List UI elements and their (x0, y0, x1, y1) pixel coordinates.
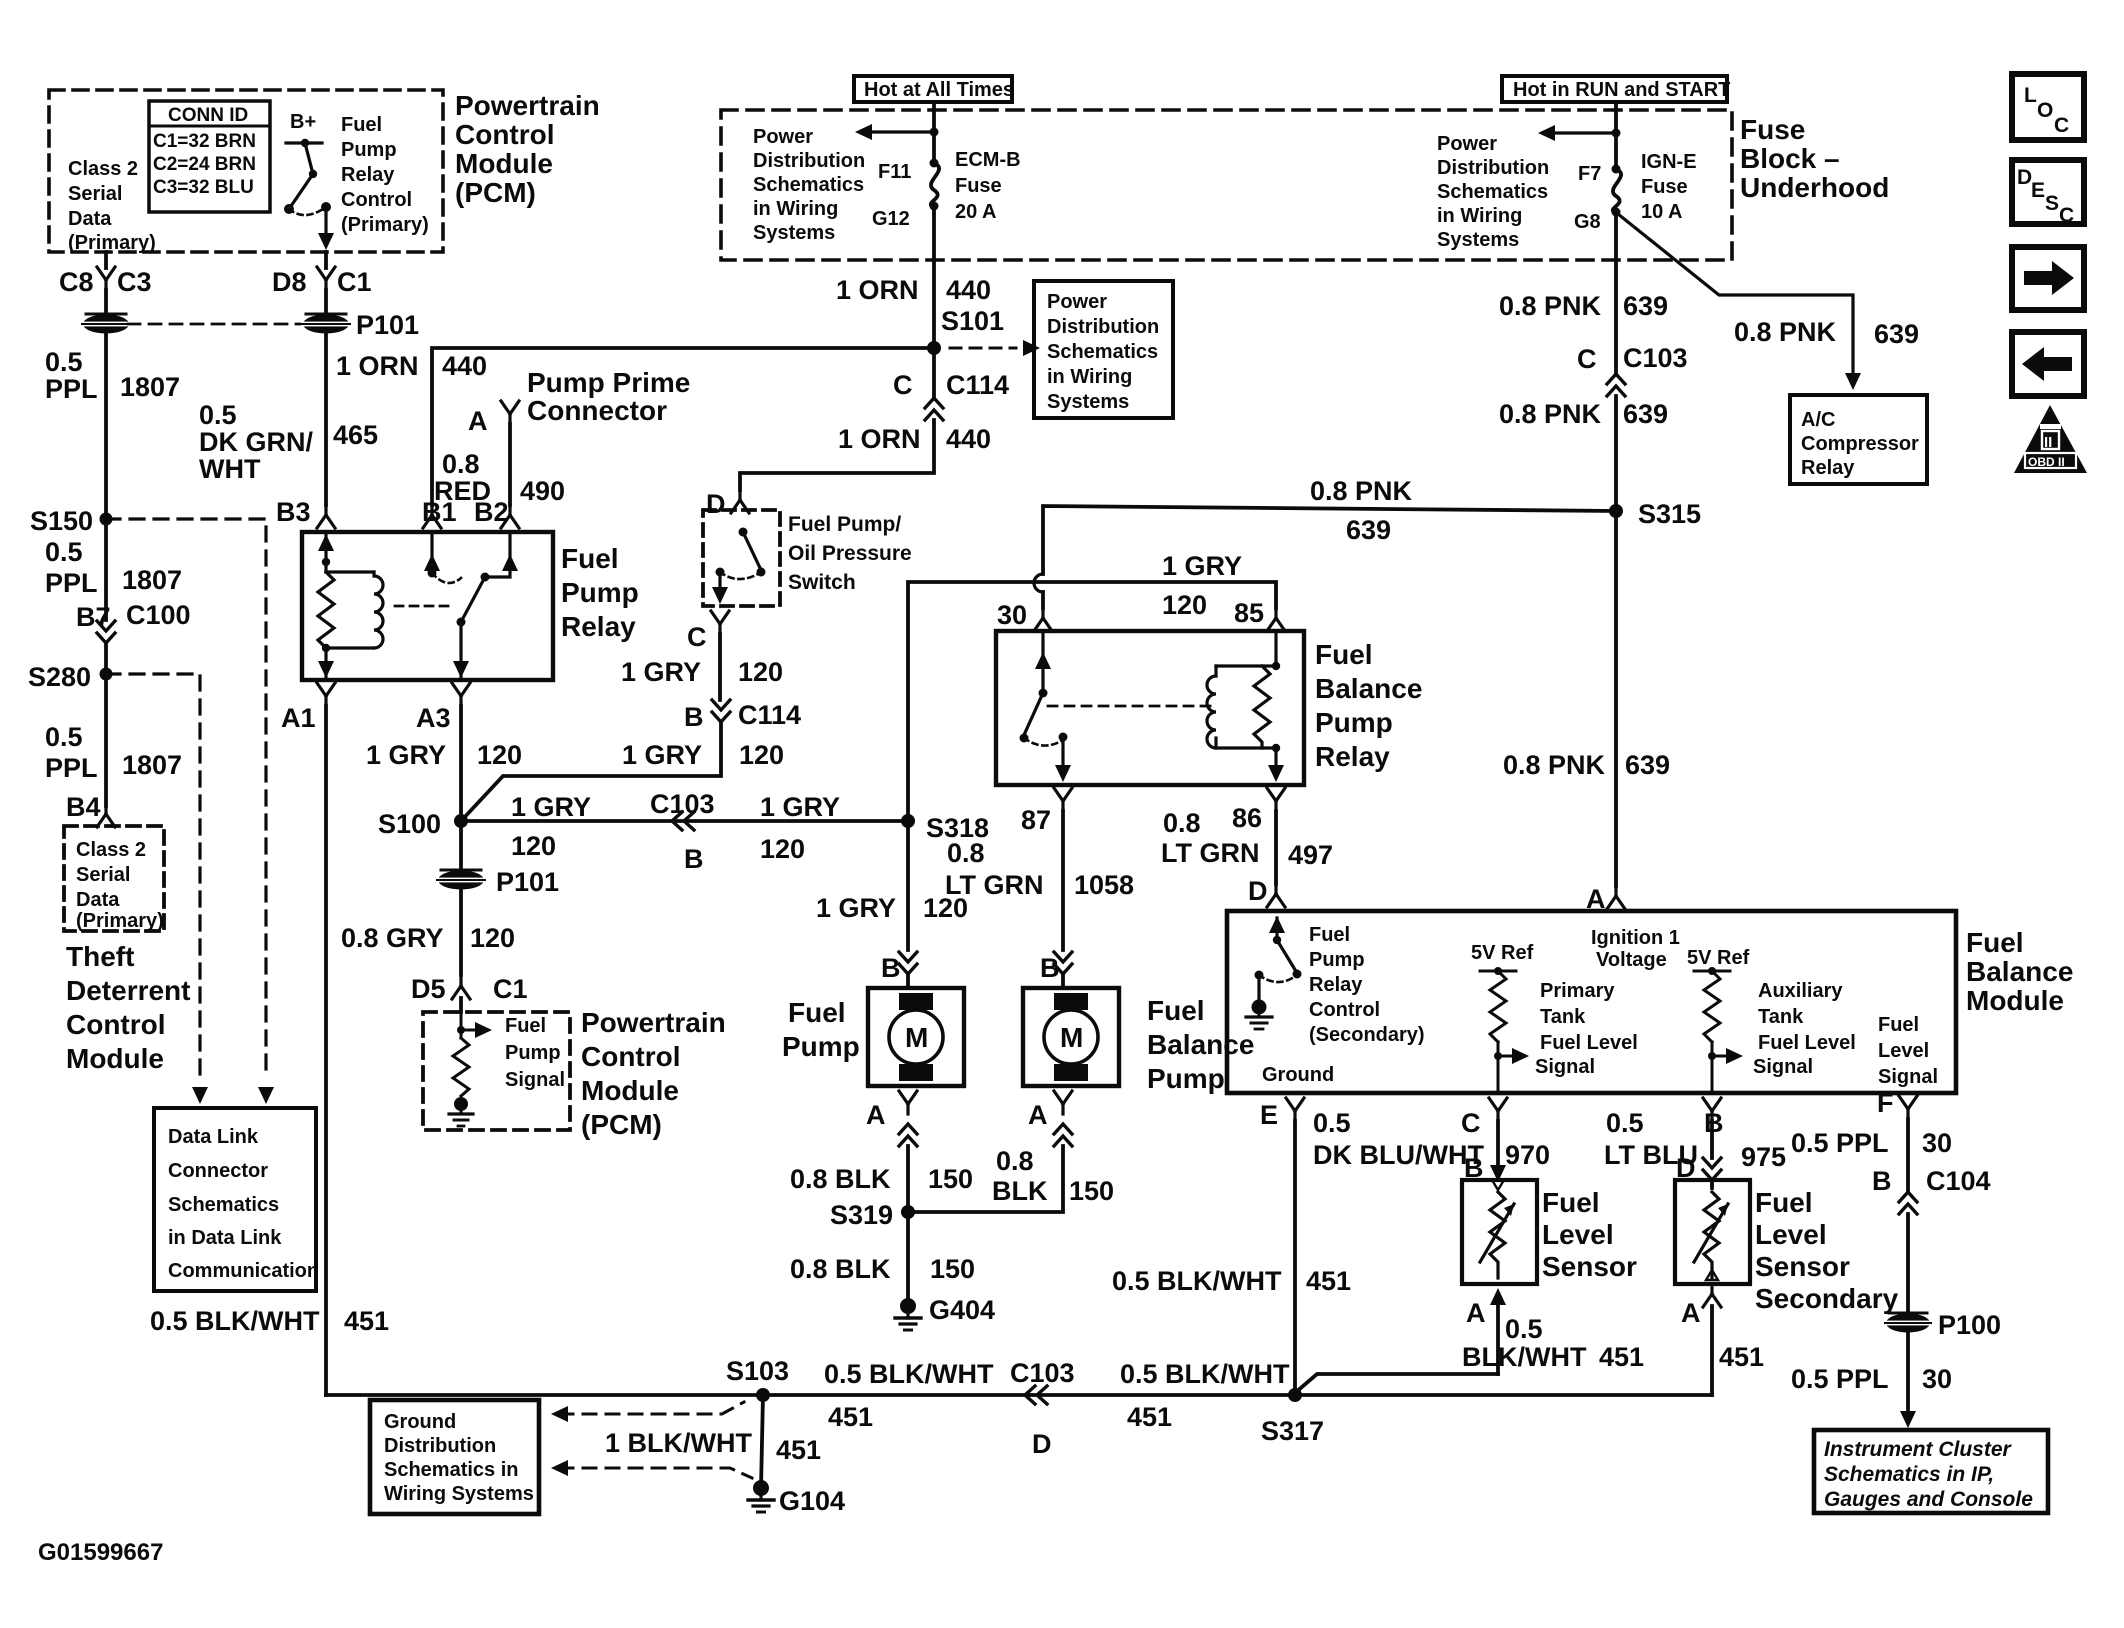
wire 86 to module pin D (0.8 LT GRN 497) (1274, 811, 1278, 884)
wire D8/C1 to B3 (0.5 DK GRN/WHT 465) (324, 290, 328, 316)
svg-text:Systems: Systems (1047, 391, 1129, 413)
svg-text:0.5 BLK/WHT: 0.5 BLK/WHT (150, 1306, 320, 1336)
svg-text:465: 465 (333, 420, 378, 450)
wire S315 to module pin A (0.8 PNK 639) (1614, 511, 1618, 886)
wire P100 to instrument cluster (0.5 PPL 30) (1906, 1333, 1910, 1410)
Fuel Pump Relay Control (Primary) label (341, 114, 429, 236)
svg-text:0.5 PPL: 0.5 PPL (1791, 1128, 1889, 1158)
svg-text:Tank: Tank (1540, 1006, 1586, 1028)
svg-text:5V Ref: 5V Ref (1471, 942, 1534, 964)
svg-text:Level: Level (1755, 1219, 1827, 1250)
svg-text:B4: B4 (66, 792, 101, 822)
svg-text:120: 120 (738, 657, 783, 687)
dashed arrow S101 to power distribution box (950, 347, 1016, 350)
svg-text:Module: Module (66, 1043, 164, 1074)
node S318 (901, 814, 915, 828)
svg-text:87: 87 (1021, 805, 1051, 835)
svg-text:Tank: Tank (1758, 1006, 1804, 1028)
svg-text:B3: B3 (276, 497, 311, 527)
svg-text:S103: S103 (726, 1356, 789, 1386)
svg-text:85: 85 (1234, 598, 1264, 628)
svg-text:639: 639 (1346, 515, 1391, 545)
svg-text:Relay: Relay (1315, 741, 1390, 772)
svg-text:30: 30 (1922, 1364, 1952, 1394)
svg-text:0.8 BLK: 0.8 BLK (790, 1254, 891, 1284)
svg-text:0.5: 0.5 (1313, 1108, 1351, 1138)
fuel pump motor (868, 988, 964, 1086)
Powertrain Control Module (PCM) label (455, 90, 600, 208)
svg-text:C100: C100 (126, 600, 191, 630)
svg-text:C3: C3 (117, 267, 152, 297)
svg-text:1 GRY: 1 GRY (511, 792, 591, 822)
svg-text:Hot at All Times: Hot at All Times (864, 79, 1014, 101)
svg-text:Module: Module (455, 148, 553, 179)
svg-text:Class 2: Class 2 (68, 158, 138, 180)
svg-text:Control: Control (1309, 999, 1380, 1021)
svg-text:Schematics: Schematics (1437, 181, 1548, 203)
svg-text:S280: S280 (28, 662, 91, 692)
Fuel Level Sensor Secondary label (1755, 1187, 1899, 1314)
svg-text:0.5 BLK/WHT: 0.5 BLK/WHT (1112, 1266, 1282, 1296)
svg-text:Underhood: Underhood (1740, 172, 1889, 203)
svg-text:DK GRN/: DK GRN/ (199, 427, 313, 457)
svg-text:Fuel: Fuel (1542, 1187, 1600, 1218)
svg-text:(PCM): (PCM) (455, 177, 536, 208)
svg-text:F: F (1877, 1088, 1894, 1118)
svg-text:Fuel: Fuel (1315, 639, 1373, 670)
node S150 (100, 513, 113, 526)
svg-text:0.8 PNK: 0.8 PNK (1310, 476, 1413, 506)
node S319 (901, 1205, 915, 1219)
svg-text:0.8 PNK: 0.8 PNK (1503, 750, 1606, 780)
wire C8 to P101 grommet (104, 290, 108, 316)
svg-text:in Wiring: in Wiring (753, 198, 838, 220)
svg-text:1807: 1807 (122, 750, 182, 780)
svg-text:30: 30 (1922, 1128, 1952, 1158)
wire C to C114-B (1 GRY 120) (718, 634, 722, 700)
svg-text:Connector: Connector (168, 1160, 268, 1182)
wire C114-B to S100 (1 GRY 120) (461, 723, 721, 821)
svg-text:DK BLU/WHT: DK BLU/WHT (1313, 1140, 1484, 1170)
module relay driver (secondary) (1259, 918, 1297, 1000)
grommet P101 (gray wire) (436, 870, 486, 890)
Hot in RUN and START tag (1502, 76, 1730, 102)
wire B7/C100 to S280 (104, 643, 108, 674)
svg-text:5V Ref: 5V Ref (1687, 947, 1750, 969)
svg-text:Fuse: Fuse (1641, 176, 1688, 198)
svg-text:B: B (684, 844, 704, 874)
svg-text:B: B (881, 953, 901, 983)
node S317 (1288, 1388, 1302, 1402)
svg-text:Power: Power (1437, 133, 1497, 155)
svg-text:Fuel: Fuel (341, 114, 382, 136)
svg-text:Level: Level (1542, 1219, 1614, 1250)
svg-text:150: 150 (928, 1164, 973, 1194)
grommet P101 (left) (81, 314, 131, 334)
svg-text:1 GRY: 1 GRY (622, 740, 702, 770)
dashed arrows to ground distribution box (1 BLK/WHT 451) (560, 1402, 752, 1478)
wire C114 to fuel pump/oil pressure switch pin D (740, 420, 934, 490)
svg-text:Schematics: Schematics (168, 1194, 279, 1216)
svg-text:Signal: Signal (1753, 1056, 1813, 1078)
svg-text:C104: C104 (1926, 1166, 1991, 1196)
svg-text:120: 120 (760, 834, 805, 864)
LOC icon (2012, 74, 2084, 140)
svg-text:Fuel: Fuel (1147, 995, 1205, 1026)
svg-text:G404: G404 (929, 1295, 995, 1325)
oil pressure switch contacts (720, 532, 761, 596)
Class 2 Serial Data (Primary) dashed box (theft module) (64, 826, 164, 931)
svg-text:Auxiliary: Auxiliary (1758, 980, 1843, 1002)
svg-text:C3=32 BLU: C3=32 BLU (153, 177, 254, 198)
svg-text:Block –: Block – (1740, 143, 1840, 174)
svg-text:Class 2: Class 2 (76, 839, 146, 861)
svg-text:Compressor: Compressor (1801, 433, 1919, 455)
svg-text:Powertrain: Powertrain (455, 90, 600, 121)
svg-text:Instrument Cluster: Instrument Cluster (1824, 1438, 2013, 1461)
svg-text:A: A (1028, 1100, 1048, 1130)
wire label 0.5 PPL 1807 (mid) (45, 537, 182, 598)
svg-text:Serial: Serial (68, 183, 122, 205)
svg-text:C114: C114 (946, 370, 1009, 400)
Auxiliary Tank Fuel Level Signal label (1753, 980, 1856, 1078)
svg-text:86: 86 (1232, 803, 1262, 833)
svg-text:10 A: 10 A (1641, 201, 1683, 223)
Ground Distribution Schematics box (370, 1400, 539, 1514)
svg-text:Balance: Balance (1315, 673, 1422, 704)
svg-text:490: 490 (520, 476, 565, 506)
svg-text:451: 451 (344, 1306, 389, 1336)
svg-text:0.5: 0.5 (45, 722, 83, 752)
svg-text:639: 639 (1874, 319, 1919, 349)
svg-text:497: 497 (1288, 840, 1333, 870)
svg-text:639: 639 (1623, 399, 1668, 429)
wire label 1 ORN 440 (to B1) (336, 351, 487, 381)
svg-text:Fuel: Fuel (505, 1015, 546, 1037)
branch to A/C compressor relay (0.8 PNK 639) (1618, 214, 1853, 374)
wire sensor A to S317 (0.5 BLK/WHT 451) (1295, 1374, 1498, 1393)
svg-text:1058: 1058 (1074, 870, 1134, 900)
svg-text:120: 120 (470, 923, 515, 953)
svg-text:451: 451 (828, 1402, 873, 1432)
fuel balance module box (1227, 911, 1956, 1093)
wire label 0.5 PPL 1807 (upper) (45, 347, 180, 404)
svg-text:451: 451 (1599, 1342, 1644, 1372)
svg-text:C: C (1461, 1108, 1481, 1138)
svg-text:PPL: PPL (45, 374, 98, 404)
svg-text:(Secondary): (Secondary) (1309, 1024, 1425, 1046)
Fuel Balance Pump Relay label (1315, 639, 1422, 772)
PCM dashed box (fuel pump signal) (423, 1012, 570, 1130)
svg-text:Powertrain: Powertrain (581, 1007, 726, 1038)
svg-text:C1: C1 (493, 974, 528, 1004)
wire tag to fuse F7 (1614, 103, 1618, 169)
svg-text:ECM-B: ECM-B (955, 149, 1021, 171)
svg-text:B7: B7 (76, 602, 111, 632)
Fuel Level Sensor label (1542, 1187, 1637, 1282)
svg-text:Relay: Relay (341, 164, 395, 186)
svg-text:Gauges and Console: Gauges and Console (1824, 1488, 2033, 1511)
svg-text:Secondary: Secondary (1755, 1283, 1899, 1314)
svg-text:Pump: Pump (1147, 1063, 1225, 1094)
back arrow icon (2012, 332, 2084, 396)
svg-text:1 GRY: 1 GRY (366, 740, 446, 770)
svg-text:1 BLK/WHT: 1 BLK/WHT (605, 1428, 752, 1458)
svg-text:0.5 BLK/WHT: 0.5 BLK/WHT (824, 1359, 994, 1389)
svg-text:440: 440 (946, 275, 991, 305)
wire S280 to B4 (104, 674, 108, 806)
svg-text:0.8 PNK: 0.8 PNK (1499, 399, 1602, 429)
svg-text:in Data Link: in Data Link (168, 1227, 282, 1249)
svg-text:0.8 GRY: 0.8 GRY (341, 923, 444, 953)
svg-text:C114: C114 (738, 700, 801, 730)
svg-text:Systems: Systems (753, 222, 835, 244)
Power Distribution Schematics in Wiring Systems box (center) (1034, 281, 1173, 418)
svg-text:Data: Data (76, 889, 120, 911)
svg-text:Schematics in: Schematics in (384, 1459, 519, 1481)
svg-text:PPL: PPL (45, 753, 98, 783)
svg-text:M: M (905, 1022, 928, 1053)
svg-text:G12: G12 (872, 208, 910, 230)
svg-text:120: 120 (477, 740, 522, 770)
svg-text:Control: Control (341, 189, 412, 211)
fuse block dashed box (underhood) (721, 110, 1732, 260)
wire 87 to balance pump pin B (0.8 LT GRN 1058) (1061, 811, 1065, 950)
svg-text:639: 639 (1623, 291, 1668, 321)
dashed tie between P101 grommets (128, 323, 304, 326)
svg-text:C: C (687, 622, 707, 652)
fuel level sensor (primary) (1462, 1180, 1537, 1284)
svg-text:Pump: Pump (561, 577, 639, 608)
fuel pump relay box (302, 532, 553, 680)
svg-text:(Primary): (Primary) (341, 214, 429, 236)
node S100 (454, 814, 468, 828)
svg-text:Control: Control (581, 1041, 681, 1072)
svg-text:Data Link: Data Link (168, 1126, 259, 1148)
svg-text:Relay: Relay (1801, 457, 1855, 479)
dashed branch S280 to data link drop (106, 674, 200, 1078)
svg-text:451: 451 (1127, 1402, 1172, 1432)
svg-text:1 ORN: 1 ORN (838, 424, 921, 454)
svg-text:C103: C103 (650, 789, 715, 819)
svg-text:in Wiring: in Wiring (1437, 205, 1522, 227)
svg-text:150: 150 (930, 1254, 975, 1284)
svg-text:LT GRN: LT GRN (1161, 838, 1259, 868)
svg-text:S315: S315 (1638, 499, 1701, 529)
svg-text:II: II (2044, 434, 2052, 451)
svg-text:(Primary): (Primary) (68, 232, 156, 254)
svg-text:in Wiring: in Wiring (1047, 366, 1132, 388)
Fuel Pump label (782, 997, 860, 1062)
CONN ID table (149, 101, 270, 212)
wire pin F to C104 (0.5 PPL 30) (1906, 1119, 1910, 1192)
svg-text:D: D (706, 489, 726, 519)
wire P101 to S150 (104, 332, 108, 519)
svg-text:Control: Control (455, 119, 555, 150)
svg-text:0.5: 0.5 (199, 400, 237, 430)
svg-text:Signal: Signal (1878, 1066, 1938, 1088)
Data Link Connector Schematics box (154, 1108, 316, 1291)
svg-text:451: 451 (1719, 1342, 1764, 1372)
svg-text:F7: F7 (1578, 163, 1601, 185)
svg-text:1 GRY: 1 GRY (1162, 551, 1242, 581)
Power Distribution Schematics in Wiring Systems label (left) (753, 126, 865, 244)
wire A1 down (0.5 BLK/WHT 451) (324, 706, 328, 1395)
svg-text:Level: Level (1878, 1040, 1929, 1062)
Ignition 1 Voltage label (1591, 927, 1680, 971)
svg-text:C103: C103 (1623, 343, 1688, 373)
svg-text:L: L (2024, 84, 2037, 107)
node S101 (927, 341, 941, 355)
fuse ECM-B 20A (930, 159, 939, 168)
svg-text:S101: S101 (941, 306, 1004, 336)
wire C103 to S315 (1614, 396, 1618, 511)
svg-text:120: 120 (511, 831, 556, 861)
Hot at All Times tag (854, 76, 1014, 102)
svg-text:Fuel Level: Fuel Level (1540, 1032, 1638, 1054)
svg-text:Hot in RUN and START: Hot in RUN and START (1513, 79, 1730, 101)
svg-text:0.8 BLK: 0.8 BLK (790, 1164, 891, 1194)
OBD II triangle icon (2014, 405, 2087, 473)
svg-text:A: A (468, 406, 488, 436)
svg-text:Module: Module (1966, 985, 2064, 1016)
forward arrow icon (2012, 247, 2084, 310)
Theft Deterrent Control Module label (66, 941, 190, 1074)
svg-text:0.8: 0.8 (996, 1146, 1034, 1176)
wire S315 to balance relay pin 30 (0.8 PNK 639) (1043, 506, 1616, 574)
svg-text:Switch: Switch (788, 571, 856, 594)
svg-text:440: 440 (946, 424, 991, 454)
svg-text:BLK: BLK (992, 1176, 1048, 1206)
svg-text:Connector: Connector (527, 395, 667, 426)
node S103 (756, 1388, 770, 1402)
svg-text:Sensor: Sensor (1755, 1251, 1850, 1282)
svg-text:Systems: Systems (1437, 229, 1519, 251)
wire balance pump A to S319 (0.8 BLK 150) (908, 1146, 1063, 1212)
svg-text:30: 30 (997, 600, 1027, 630)
fuel pump relay coil branch (B3-A1) (318, 532, 383, 678)
svg-text:1807: 1807 (120, 372, 180, 402)
svg-text:Fuel: Fuel (1878, 1014, 1919, 1036)
wire fuse to S101 (1 ORN 440) (932, 206, 936, 399)
wire S319 to G404 (0.8 BLK 150) (906, 1212, 910, 1300)
wire pump prime to B2 (0.8 RED 490) (508, 424, 512, 505)
svg-text:1 GRY: 1 GRY (816, 893, 896, 923)
svg-text:Module: Module (581, 1075, 679, 1106)
svg-text:A1: A1 (281, 703, 316, 733)
Fuel Level Signal label (1878, 1014, 1938, 1088)
wire tag to fuse F11 (932, 102, 936, 163)
Fuel Balance Pump label (1147, 995, 1254, 1094)
svg-text:639: 639 (1625, 750, 1670, 780)
svg-text:M: M (1060, 1022, 1083, 1053)
fuel pump relay switch branch (B1/B2-A3) (395, 532, 510, 678)
wire P101 to D5 (0.8 GRY 120) (459, 888, 463, 975)
PCM module dashed box (Powertrain Control Module) (49, 90, 443, 252)
svg-text:0.8: 0.8 (442, 449, 480, 479)
svg-text:G8: G8 (1574, 211, 1601, 233)
wire label 0.5 PPL 1807 (lower) (45, 722, 182, 783)
svg-text:F11: F11 (878, 161, 911, 183)
svg-text:Voltage: Voltage (1596, 949, 1667, 971)
Fuel Balance Module label (1966, 927, 2073, 1016)
svg-text:D: D (2017, 166, 2032, 189)
svg-text:0.8 PNK: 0.8 PNK (1734, 317, 1837, 347)
wire S100 down to P101 (459, 821, 463, 872)
bus label right (0.5 BLK/WHT 451) (1120, 1359, 1290, 1432)
svg-text:S150: S150 (30, 506, 93, 536)
wire pin C to sensor (0.5 DK BLU/WHT 970) (1496, 1121, 1500, 1172)
svg-text:Power: Power (753, 126, 813, 148)
svg-text:Data: Data (68, 208, 112, 230)
svg-text:Relay: Relay (1309, 974, 1363, 996)
svg-text:120: 120 (923, 893, 968, 923)
svg-text:451: 451 (776, 1435, 821, 1465)
svg-text:Primary: Primary (1540, 980, 1615, 1002)
svg-text:Distribution: Distribution (384, 1435, 496, 1457)
svg-text:CONN ID: CONN ID (168, 105, 248, 126)
svg-text:D: D (1032, 1429, 1052, 1459)
wire fuel pump A to S319 (0.8 BLK 150) (906, 1146, 910, 1212)
svg-text:Pump: Pump (1315, 707, 1393, 738)
fuse IGN-E 10A (1612, 165, 1621, 174)
Instrument Cluster Schematics box (1814, 1430, 2048, 1513)
svg-text:G104: G104 (779, 1486, 845, 1516)
ground bus wire 451 (326, 1393, 1712, 1397)
A/C Compressor Relay box (1790, 395, 1927, 484)
Pump Prime Connector label (527, 367, 690, 426)
svg-text:OBD II: OBD II (2028, 455, 2065, 469)
Fuel Pump Relay Control (Secondary) label (1309, 924, 1425, 1046)
Fuel Pump/Oil Pressure Switch label (788, 513, 912, 594)
svg-text:1 ORN: 1 ORN (336, 351, 419, 381)
svg-text:Wiring Systems: Wiring Systems (384, 1483, 534, 1505)
svg-text:S318: S318 (926, 813, 989, 843)
svg-text:Fuel: Fuel (788, 997, 846, 1028)
svg-text:Ground: Ground (384, 1411, 456, 1433)
svg-text:975: 975 (1741, 1142, 1786, 1172)
svg-text:Fuel Pump/: Fuel Pump/ (788, 513, 901, 536)
svg-text:Fuel Level: Fuel Level (1758, 1032, 1856, 1054)
svg-text:Fuel: Fuel (561, 543, 619, 574)
svg-text:Signal: Signal (505, 1069, 565, 1091)
svg-text:Serial: Serial (76, 864, 130, 886)
svg-text:Fuel: Fuel (1309, 924, 1350, 946)
svg-text:D: D (1248, 876, 1268, 906)
svg-text:Pump: Pump (1309, 949, 1365, 971)
svg-text:Pump: Pump (505, 1042, 561, 1064)
svg-text:P101: P101 (496, 867, 559, 897)
svg-text:Schematics in IP,: Schematics in IP, (1824, 1463, 1994, 1486)
svg-text:1 GRY: 1 GRY (760, 792, 840, 822)
svg-text:B: B (684, 702, 704, 732)
svg-text:Pump Prime: Pump Prime (527, 367, 690, 398)
svg-text:120: 120 (739, 740, 784, 770)
svg-text:WHT: WHT (199, 454, 261, 484)
arrow to power distribution (right) (1545, 131, 1616, 134)
svg-text:Fuel: Fuel (1755, 1187, 1813, 1218)
wire S318 to balance relay pin 85 (1 GRY 120) (908, 582, 1276, 821)
wire A3 to S100 (1 GRY 120) (459, 706, 463, 821)
svg-text:0.8: 0.8 (1163, 808, 1201, 838)
Primary Tank Fuel Level Signal label (1535, 980, 1638, 1078)
svg-text:Ground: Ground (1262, 1064, 1334, 1086)
wire S103 to G104 (451) (761, 1395, 763, 1488)
svg-text:0.5: 0.5 (1505, 1314, 1543, 1344)
ground G104 (748, 1481, 774, 1513)
node S280 (100, 668, 113, 681)
svg-text:440: 440 (442, 351, 487, 381)
